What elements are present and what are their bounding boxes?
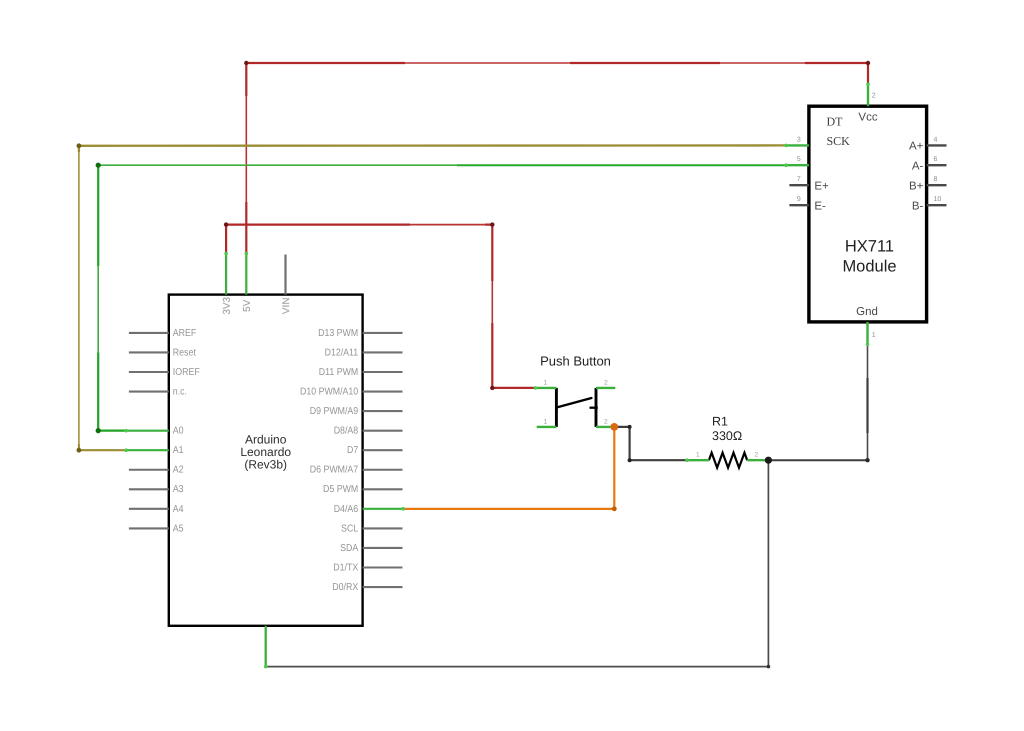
svg-text:7: 7 — [797, 176, 801, 183]
pin A1 (Arduino left) — [124, 445, 184, 456]
label DT (HX711 pin name) — [827, 114, 844, 128]
svg-text:D10 PWM/A10: D10 PWM/A10 — [300, 386, 359, 397]
pin 1 (R1 left) — [685, 452, 709, 463]
svg-text:SCL: SCL — [341, 523, 358, 534]
wire orange: push button pin 2 to Arduino D4/A6 — [403, 427, 616, 511]
svg-text:D9 PWM/A9: D9 PWM/A9 — [310, 406, 359, 417]
wire green: Arduino A0 to HX711 pin 5 — [96, 163, 786, 434]
svg-text:Push Button: Push Button — [540, 353, 611, 368]
svg-text:D6 PWM/A7: D6 PWM/A7 — [310, 465, 359, 476]
switch S1 Push Button symbol — [540, 353, 611, 427]
svg-text:SDA: SDA — [340, 543, 358, 554]
svg-text:9: 9 — [797, 196, 801, 203]
svg-text:VIN: VIN — [281, 297, 292, 314]
svg-text:IOREF: IOREF — [173, 367, 200, 378]
svg-text:(Rev3b): (Rev3b) — [244, 458, 287, 472]
svg-text:D8/A8: D8/A8 — [334, 426, 359, 437]
svg-text:D7: D7 — [347, 445, 359, 456]
svg-text:2: 2 — [604, 380, 608, 387]
pin AREF (Arduino left) — [129, 328, 196, 339]
pin 3 SCK (HX711 left) — [784, 134, 850, 148]
svg-text:D12/A11: D12/A11 — [325, 347, 359, 358]
pin 9 E- (HX711 left) — [789, 196, 826, 212]
pin 2 Vcc (HX711 top) — [858, 83, 877, 124]
pin 10 B- (HX711 right) — [912, 196, 947, 212]
pin A5 (Arduino left) — [129, 523, 184, 534]
pin 5V (Arduino top) — [242, 252, 253, 312]
svg-text:n.c.: n.c. — [173, 386, 187, 397]
svg-text:SCK: SCK — [827, 134, 851, 148]
svg-text:5: 5 — [797, 156, 801, 163]
pin 1 Gnd (HX711 bottom) — [856, 306, 878, 346]
svg-text:Vcc: Vcc — [858, 111, 877, 123]
pin D4/A6 (Arduino right) — [334, 504, 405, 515]
pin 2 (push button top-right) — [596, 380, 615, 388]
svg-text:B-: B- — [912, 200, 924, 212]
svg-text:A3: A3 — [173, 484, 184, 495]
pin 1 (push button bottom-left) — [537, 418, 557, 427]
svg-text:A+: A+ — [909, 141, 924, 153]
pin D10 PWM/A10 (Arduino right) — [300, 386, 403, 397]
pin GND (Arduino bottom) — [264, 626, 268, 669]
module: HX711 Module body — [809, 106, 927, 322]
pin 5 (HX711 left) — [784, 156, 809, 167]
svg-text:A5: A5 — [173, 523, 184, 534]
svg-text:E-: E- — [814, 200, 826, 212]
pin SCL (Arduino right) — [341, 523, 402, 534]
svg-text:3V3: 3V3 — [222, 296, 233, 314]
pin 3V3 (Arduino top) — [222, 252, 233, 315]
pin SDA (Arduino right) — [340, 543, 402, 554]
svg-text:8: 8 — [934, 176, 938, 183]
svg-text:HX711: HX711 — [845, 237, 894, 255]
junction: R1 pin 2 node — [765, 457, 772, 464]
pin D9 PWM/A9 (Arduino right) — [310, 406, 403, 417]
pin D0/RX (Arduino right) — [332, 582, 402, 593]
svg-text:1: 1 — [696, 452, 700, 459]
wire red: Arduino 3V3 to push button pin 1 — [224, 222, 536, 390]
wire black: push button pin 2 to resistor R1 pin 1 — [614, 425, 687, 462]
svg-text:A1: A1 — [173, 445, 184, 456]
svg-text:1: 1 — [544, 418, 548, 425]
svg-text:Gnd: Gnd — [856, 306, 878, 318]
svg-text:D11 PWM: D11 PWM — [319, 367, 358, 378]
wire black: resistor R1 pin 2 to HX711 Gnd pin 1 — [768, 344, 869, 462]
pin 2 (push button bottom-right) — [596, 418, 614, 427]
junction: push button pin 2 / orange-black node — [610, 423, 618, 431]
svg-text:10: 10 — [934, 196, 942, 203]
pin 2 (R1 right) — [747, 452, 768, 461]
svg-text:A0: A0 — [173, 426, 184, 437]
svg-text:D13 PWM: D13 PWM — [318, 328, 358, 339]
svg-text:D5 PWM: D5 PWM — [323, 484, 358, 495]
wire red: Arduino 5V to HX711 Vcc pin 2 — [244, 61, 870, 254]
module: Arduino Leonardo (Rev3b) body — [169, 295, 363, 626]
pin A0 (Arduino left) — [124, 426, 184, 437]
wire black: resistor R1 pin 2 to Arduino GND (bottom pin) — [266, 460, 771, 668]
svg-text:3: 3 — [797, 136, 801, 143]
svg-text:2: 2 — [604, 418, 608, 425]
svg-text:B+: B+ — [909, 180, 924, 192]
svg-text:A2: A2 — [173, 465, 184, 476]
svg-text:E+: E+ — [814, 180, 829, 192]
wire brown: Arduino A1 to HX711 SCK pin 3 — [77, 143, 787, 452]
pin 6 A- (HX711 right) — [912, 156, 947, 172]
pin A2 (Arduino left) — [129, 465, 184, 476]
svg-text:Reset: Reset — [173, 347, 196, 358]
pin 7 E+ (HX711 left) — [789, 176, 829, 192]
svg-text:A-: A- — [912, 160, 924, 172]
svg-text:4: 4 — [934, 136, 938, 143]
pin VIN (Arduino top) — [281, 255, 292, 315]
svg-text:330Ω: 330Ω — [712, 429, 742, 443]
svg-text:2: 2 — [755, 452, 759, 459]
svg-text:DT: DT — [827, 114, 844, 128]
svg-text:1: 1 — [872, 332, 876, 339]
pin D13 PWM (Arduino right) — [318, 328, 402, 339]
pin Reset (Arduino left) — [129, 347, 196, 358]
svg-text:D4/A6: D4/A6 — [334, 504, 359, 515]
pin IOREF (Arduino left) — [129, 367, 200, 378]
svg-text:5V: 5V — [242, 299, 253, 312]
pin D11 PWM (Arduino right) — [319, 367, 403, 378]
pin 1 (push button top-left) — [534, 380, 557, 390]
svg-text:D0/RX: D0/RX — [332, 582, 358, 593]
resistor R1 330ohm — [709, 415, 747, 468]
pin D6 PWM/A7 (Arduino right) — [310, 465, 403, 476]
svg-text:2: 2 — [872, 92, 876, 99]
pin 4 A+ (HX711 right) — [909, 136, 946, 152]
svg-text:AREF: AREF — [173, 328, 197, 339]
pin D5 PWM (Arduino right) — [323, 484, 403, 495]
pin n.c. (Arduino left) — [129, 386, 187, 397]
svg-text:D1/TX: D1/TX — [333, 562, 358, 573]
svg-text:Module: Module — [842, 258, 896, 276]
pin D1/TX (Arduino right) — [333, 562, 402, 573]
pin D8/A8 (Arduino right) — [334, 426, 403, 437]
pin A3 (Arduino left) — [129, 484, 184, 495]
svg-text:R1: R1 — [712, 415, 728, 429]
pin 8 B+ (HX711 right) — [909, 176, 946, 192]
svg-text:6: 6 — [934, 156, 938, 163]
svg-text:1: 1 — [544, 380, 548, 387]
pin D7 (Arduino right) — [347, 445, 403, 456]
pin A4 (Arduino left) — [129, 504, 184, 515]
svg-text:A4: A4 — [173, 504, 184, 515]
pin D12/A11 (Arduino right) — [325, 347, 403, 358]
